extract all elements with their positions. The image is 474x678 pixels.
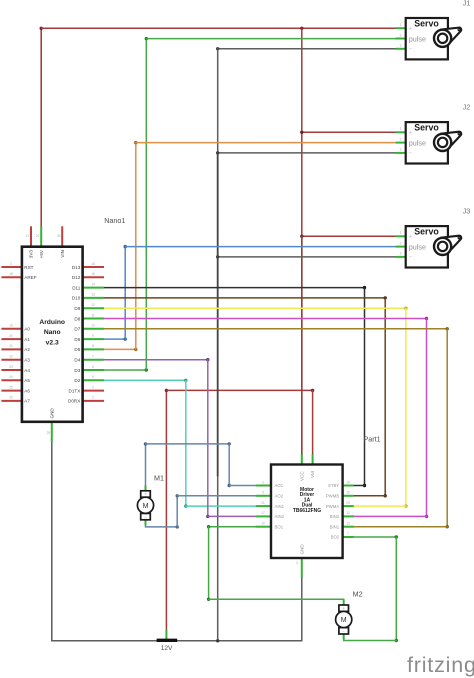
svg-text:2: 2 <box>92 396 94 400</box>
svg-text:17: 17 <box>26 234 30 238</box>
Part1 pin BIN2 leg <box>343 515 354 517</box>
J3 horn arm <box>441 236 461 253</box>
svg-text:D13: D13 <box>72 265 81 270</box>
Part1 pin AO2 leg <box>256 495 271 497</box>
svg-text:3: 3 <box>400 148 402 152</box>
wire J1pulse horizontal <box>146 38 395 40</box>
wire M1+ riser <box>145 444 147 486</box>
M2 minus terminal <box>339 628 349 634</box>
J1 body <box>406 18 448 59</box>
node BIN1 corner <box>446 525 449 528</box>
svg-text:J1: J1 <box>463 0 471 7</box>
J1 pin 1 leg <box>396 27 406 29</box>
svg-text:21: 21 <box>9 344 13 348</box>
node AIN1 corner <box>184 504 187 507</box>
wire AO2 horizontal <box>177 495 256 497</box>
svg-text:3: 3 <box>400 44 402 48</box>
svg-text:11: 11 <box>91 313 95 317</box>
pin +5V leg <box>40 226 42 246</box>
M1 minus terminal <box>141 513 151 519</box>
node gnd corner J1 <box>216 47 219 50</box>
svg-text:3: 3 <box>400 252 402 256</box>
svg-text:D8: D8 <box>74 316 80 321</box>
svg-text:A2: A2 <box>24 347 30 352</box>
Part1 pin BO1 leg <box>256 526 271 528</box>
wire J3pulse horizontal <box>125 246 396 248</box>
node BIN2 corner <box>425 515 428 518</box>
svg-text:10: 10 <box>91 324 95 328</box>
svg-text:Part1: Part1 <box>364 435 381 444</box>
svg-text:Servo: Servo <box>414 227 439 237</box>
wire BO2 horizontal <box>354 536 397 538</box>
node +5V corner <box>40 27 43 30</box>
node M1+ corner b <box>228 442 231 445</box>
pin A4 leg <box>1 369 22 371</box>
svg-text:−: − <box>409 151 412 156</box>
node gnd tee J2 <box>216 151 219 154</box>
wire BIN2 vertical <box>426 319 428 517</box>
svg-text:2: 2 <box>400 33 402 37</box>
svg-text:D11: D11 <box>72 285 81 290</box>
pin A7 leg <box>1 400 22 402</box>
wire BIN1 horizontal <box>354 526 447 528</box>
node PWMB corner <box>384 494 387 497</box>
wire D9 horizontal <box>104 307 406 309</box>
Part1 body <box>271 465 343 559</box>
J1 horn arm <box>441 28 461 45</box>
pin A5 leg <box>1 379 22 381</box>
svg-text:5: 5 <box>262 491 264 495</box>
svg-text:1: 1 <box>92 385 94 389</box>
node D10 corner <box>384 296 387 299</box>
Part1 pin VCC leg <box>301 454 303 464</box>
Part1 pin AIN2 leg <box>256 515 271 517</box>
J3 pin 2 leg <box>396 246 406 248</box>
wire PWMB horizontal <box>354 495 385 497</box>
node 12V corner a <box>165 389 168 392</box>
servo J2 <box>396 122 462 163</box>
svg-text:23: 23 <box>9 365 13 369</box>
J3 body <box>406 226 448 267</box>
svg-text:BIN1: BIN1 <box>330 524 340 529</box>
svg-text:D10: D10 <box>72 296 81 301</box>
pin D7 leg <box>83 328 104 330</box>
wire AIN2 horizontal <box>208 515 256 517</box>
Part1 pin PWMB leg <box>343 495 354 497</box>
node M2- corner <box>395 639 398 642</box>
wire J1- horizontal <box>218 48 396 50</box>
M1 plus leg <box>145 485 147 491</box>
svg-text:10: 10 <box>261 522 265 526</box>
motor M2 <box>336 600 352 640</box>
svg-text:PWMA: PWMA <box>326 504 340 509</box>
wire BO2 vertical <box>395 537 397 641</box>
J3 horn tip hole <box>458 237 460 239</box>
svg-text:D9: D9 <box>74 306 80 311</box>
servo J3 <box>396 226 462 267</box>
M2 minus leg <box>343 634 345 640</box>
wire J1pulse vertical <box>145 39 147 370</box>
svg-text:Arduino: Arduino <box>39 319 65 326</box>
wire D10 horizontal <box>104 297 385 299</box>
svg-text:M: M <box>143 503 149 510</box>
svg-text:D1TX: D1TX <box>69 388 81 393</box>
node 5V tee J2 <box>300 131 303 134</box>
J3 pin 1 leg <box>396 235 406 237</box>
wire 5V vertical <box>301 28 303 454</box>
wire +5V riser <box>40 28 42 226</box>
wire J3- horizontal <box>218 256 396 258</box>
wire M1+ horizontal <box>146 443 230 445</box>
wire BO1 vertical <box>208 527 210 600</box>
J2 body <box>406 122 448 163</box>
svg-text:14: 14 <box>91 282 95 286</box>
svg-text:VIN: VIN <box>60 250 65 258</box>
pin D6 leg <box>83 338 104 340</box>
svg-text:M: M <box>341 617 347 624</box>
svg-text:D2: D2 <box>74 378 80 383</box>
node D7 corner <box>446 327 449 330</box>
wire 5V vcc overlap <box>301 236 303 454</box>
node BO1 corner <box>207 525 210 528</box>
pin A0 leg <box>1 328 22 330</box>
svg-text:1: 1 <box>400 231 402 235</box>
wire AIN1 vertical <box>185 380 187 506</box>
pin D8 leg <box>83 318 104 320</box>
pin D5 leg <box>83 348 104 350</box>
svg-text:TB6612FNG: TB6612FNG <box>293 508 321 514</box>
svg-text:J3: J3 <box>463 206 471 215</box>
node D2 corner <box>184 379 187 382</box>
svg-text:M2: M2 <box>353 590 363 599</box>
svg-text:Nano1: Nano1 <box>104 216 125 225</box>
svg-text:A0: A0 <box>24 327 30 332</box>
svg-text:6: 6 <box>92 365 94 369</box>
wire 12V riser <box>165 390 167 629</box>
svg-text:D5: D5 <box>74 347 80 352</box>
wire M2+ horizontal <box>209 598 344 600</box>
pin D13 leg <box>83 266 104 268</box>
svg-text:VCC: VCC <box>299 471 304 481</box>
J1 horn hub outer <box>434 30 451 47</box>
Part1 pin STBY leg <box>343 485 354 487</box>
wire BIN1 vertical <box>446 329 448 527</box>
J1 pin 2 leg <box>396 38 406 40</box>
wire 12V to VM <box>312 390 314 454</box>
wire D6 horizontal <box>104 338 125 340</box>
svg-text:12V: 12V <box>161 645 173 652</box>
node J3pulse corner <box>124 245 127 248</box>
pin GND leg <box>51 422 53 442</box>
svg-text:15: 15 <box>346 491 350 495</box>
M2 body circle <box>336 611 352 627</box>
wire D8 horizontal <box>104 318 427 320</box>
svg-text:v2.3: v2.3 <box>46 339 59 346</box>
Part1 pin AO1 leg <box>256 485 271 487</box>
wire 5V to J3+ <box>302 235 396 237</box>
svg-text:A1: A1 <box>24 337 30 342</box>
wire J2pulse horizontal <box>136 142 396 144</box>
J3 horn hub inner <box>438 242 447 251</box>
svg-text:19: 19 <box>9 324 13 328</box>
node M1+ corner a <box>144 442 147 445</box>
J1 pin 3 leg <box>396 48 406 50</box>
svg-text:J2: J2 <box>463 102 471 111</box>
M2 plus terminal <box>339 605 349 611</box>
svg-text:M1: M1 <box>154 474 164 483</box>
pin D9 leg <box>83 307 104 309</box>
pin D3 leg <box>83 369 104 371</box>
svg-text:pulse: pulse <box>409 139 426 148</box>
svg-text:12: 12 <box>91 303 95 307</box>
pin 3V3 leg <box>30 226 32 246</box>
node D9 corner <box>404 307 407 310</box>
svg-text:29: 29 <box>47 431 51 435</box>
svg-text:9: 9 <box>92 334 94 338</box>
node M2+ corner <box>207 598 210 601</box>
node M1+ corner c <box>228 484 231 487</box>
battery 12V plate <box>157 639 178 642</box>
svg-text:AO2: AO2 <box>275 494 284 499</box>
wire STBY vertical <box>364 288 366 486</box>
J2 pin 1 leg <box>396 131 406 133</box>
svg-text:A6: A6 <box>24 388 30 393</box>
node D5 corner <box>134 348 137 351</box>
motor driver Part1 <box>256 454 354 577</box>
node D3 corner <box>145 368 148 371</box>
wire J2pulse vertical <box>135 143 137 350</box>
M2 plus leg <box>343 600 345 606</box>
wire J2- horizontal <box>218 152 396 154</box>
wire D3 horizontal <box>104 369 146 371</box>
svg-text:−: − <box>409 47 412 52</box>
pin A3 leg <box>1 359 22 361</box>
svg-text:+: + <box>409 26 412 31</box>
svg-text:STBY: STBY <box>328 483 339 488</box>
pin D4 leg <box>83 359 104 361</box>
svg-text:fritzing: fritzing <box>407 653 474 677</box>
svg-text:GND: GND <box>299 544 304 555</box>
wire M2+ drop <box>343 599 345 605</box>
node D4 corner <box>206 358 209 361</box>
Part1 pin PWMA leg <box>343 505 354 507</box>
wire 5V to J2+ <box>302 131 396 133</box>
svg-text:7: 7 <box>347 532 349 536</box>
svg-text:−: − <box>409 255 412 260</box>
wire D4 horizontal <box>104 359 208 361</box>
svg-text:D6: D6 <box>74 337 80 342</box>
svg-text:Nano: Nano <box>44 329 61 336</box>
pin D0RX leg <box>83 400 104 402</box>
svg-text:A7: A7 <box>24 399 30 404</box>
pin D1TX leg <box>83 390 104 392</box>
wire BO1 horizontal <box>209 526 256 528</box>
svg-text:AO1: AO1 <box>275 483 284 488</box>
svg-text:pulse: pulse <box>409 243 426 252</box>
servo J1 <box>396 18 462 59</box>
svg-text:15: 15 <box>91 272 95 276</box>
motor M1 <box>137 485 153 525</box>
svg-text:A4: A4 <box>24 368 30 373</box>
pin A1 leg <box>1 338 22 340</box>
svg-text:BO1: BO1 <box>275 524 284 529</box>
J1 horn tip hole <box>458 29 460 31</box>
wire +5V to J1+ <box>41 27 396 29</box>
node J2pulse corner <box>134 141 137 144</box>
svg-text:D0RX: D0RX <box>68 399 80 404</box>
svg-text:30: 30 <box>57 234 61 238</box>
wire AIN2 vertical <box>207 360 209 517</box>
svg-text:A3: A3 <box>24 358 30 363</box>
svg-text:19: 19 <box>346 480 350 484</box>
node M1- corner b <box>176 494 179 497</box>
svg-text:26: 26 <box>9 396 13 400</box>
svg-text:5: 5 <box>92 375 94 379</box>
node PWMA corner <box>404 504 407 507</box>
svg-text:1: 1 <box>400 23 402 27</box>
wire M1- drop <box>145 526 147 527</box>
pin D11 leg <box>83 287 104 289</box>
svg-text:+: + <box>409 130 412 135</box>
node D8 corner <box>425 317 428 320</box>
pin D12 leg <box>83 276 104 278</box>
svg-text:13: 13 <box>346 522 350 526</box>
node 5V tee J3 <box>300 235 303 238</box>
pin VIN leg <box>61 226 63 246</box>
Part1 pin BIN1 leg <box>343 526 354 528</box>
svg-text:18: 18 <box>9 272 13 276</box>
svg-text:PWMB: PWMB <box>326 494 340 499</box>
wire AO1 horizontal <box>229 485 256 487</box>
svg-text:Servo: Servo <box>414 123 439 133</box>
wire 12V horizontal <box>166 389 312 391</box>
node bus tee <box>216 639 219 642</box>
svg-text:D3: D3 <box>74 368 80 373</box>
wire M1- vertical <box>176 496 178 527</box>
wire BIN2 horizontal <box>354 515 427 517</box>
nano body <box>22 247 83 422</box>
node D11 corner <box>363 286 366 289</box>
svg-text:AIN2: AIN2 <box>275 514 285 519</box>
wire PWMA horizontal <box>354 505 406 507</box>
J3 horn hub outer <box>434 238 451 255</box>
wire nano GND drop <box>51 442 53 641</box>
M1 body circle <box>137 497 153 513</box>
M1 plus terminal <box>141 491 151 497</box>
svg-text:3: 3 <box>10 262 12 266</box>
J2 pin 3 leg <box>396 152 406 154</box>
svg-text:pulse: pulse <box>409 34 426 43</box>
svg-text:20: 20 <box>9 334 13 338</box>
wire gnd vertical <box>217 49 219 641</box>
svg-text:D4: D4 <box>74 358 80 363</box>
wire D2 horizontal <box>104 379 186 381</box>
J2 horn arm <box>441 132 461 149</box>
svg-text:21: 21 <box>261 501 265 505</box>
M1 minus leg <box>145 520 147 526</box>
svg-text:2: 2 <box>262 480 264 484</box>
pin D2 leg <box>83 379 104 381</box>
svg-text:Servo: Servo <box>414 19 439 29</box>
wire PWMA vertical <box>405 308 407 506</box>
node M1- corner a <box>176 525 179 528</box>
wire M2- horizontal <box>344 640 397 642</box>
svg-text:22: 22 <box>9 355 13 359</box>
wire AIN1 horizontal <box>186 505 256 507</box>
wire J3pulse vertical <box>124 247 126 340</box>
wire D11 horizontal <box>104 287 365 289</box>
svg-text:+5V: +5V <box>39 249 44 258</box>
Part1 pin GND leg <box>301 558 303 577</box>
Part1 pin BO2 leg <box>343 536 354 538</box>
J3 pin 3 leg <box>396 256 406 258</box>
wire D5 horizontal <box>104 348 136 350</box>
node J1pulse corner <box>145 37 148 40</box>
svg-text:17: 17 <box>261 511 265 515</box>
svg-text:1: 1 <box>400 127 402 131</box>
svg-text:25: 25 <box>9 385 13 389</box>
svg-text:16: 16 <box>91 262 95 266</box>
svg-text:A5: A5 <box>24 378 30 383</box>
wire ground bus <box>52 640 302 642</box>
svg-text:BIN2: BIN2 <box>330 514 340 519</box>
J2 horn tip hole <box>458 133 460 135</box>
Part1 pin VM leg <box>312 454 314 464</box>
svg-text:VM: VM <box>310 471 315 478</box>
svg-text:24: 24 <box>9 375 13 379</box>
svg-text:D7: D7 <box>74 327 80 332</box>
wire D7 horizontal <box>104 328 447 330</box>
svg-text:+: + <box>409 234 412 239</box>
node D6 corner <box>124 337 127 340</box>
svg-text:27: 27 <box>36 234 40 238</box>
svg-text:2: 2 <box>400 137 402 141</box>
pin AREF leg <box>1 276 22 278</box>
pin A6 leg <box>1 390 22 392</box>
svg-text:13: 13 <box>91 293 95 297</box>
wire M2- drop <box>343 636 345 641</box>
wire gnd vertical overlap <box>217 153 219 476</box>
wire M1+ vertical <box>228 444 230 486</box>
wire driver GND drop <box>301 577 303 641</box>
svg-text:3: 3 <box>296 561 298 565</box>
svg-text:7: 7 <box>92 355 94 359</box>
svg-text:AIN1: AIN1 <box>275 504 285 509</box>
node STBY corner <box>363 484 366 487</box>
node gnd tee J3 <box>216 255 219 258</box>
J1 horn hub inner <box>438 34 447 43</box>
svg-text:AREF: AREF <box>24 275 36 280</box>
svg-text:D12: D12 <box>72 275 81 280</box>
J2 horn hub outer <box>434 134 451 151</box>
svg-text:3V3: 3V3 <box>29 250 34 259</box>
pin A2 leg <box>1 348 22 350</box>
svg-text:23: 23 <box>346 501 350 505</box>
node BO2 corner <box>395 535 398 538</box>
wire M1- horizontal <box>146 526 178 528</box>
svg-text:8: 8 <box>92 344 94 348</box>
svg-text:RST: RST <box>24 265 33 270</box>
wire PWMB vertical <box>384 298 386 496</box>
wire STBY horizontal <box>354 485 365 487</box>
Part1 pin AIN1 leg <box>256 505 271 507</box>
node AIN2 corner <box>206 515 209 518</box>
pin RST leg <box>1 266 22 268</box>
svg-text:GND: GND <box>49 408 54 419</box>
node 12V corner b <box>311 389 314 392</box>
J2 pin 2 leg <box>396 142 406 144</box>
J2 horn hub inner <box>438 138 447 147</box>
